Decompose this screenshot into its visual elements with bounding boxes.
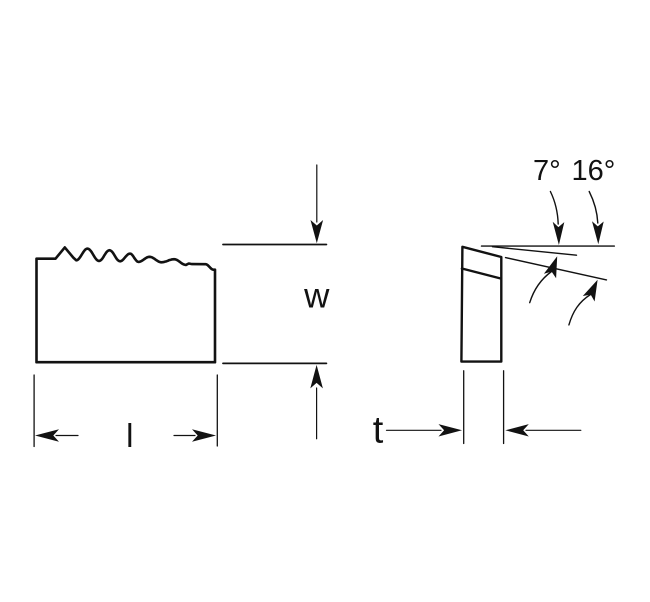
l dimension left extension line bbox=[33, 375, 35, 447]
t dimension right arrowhead (left) bbox=[505, 424, 529, 436]
w dimension upper arrowhead (down) bbox=[311, 220, 324, 243]
t dimension left extension line bbox=[463, 371, 465, 444]
16 degree curved leader arrow tail bbox=[589, 192, 598, 224]
t dimension left arrowhead (right) bbox=[439, 424, 463, 436]
w dimension bottom reference line bbox=[223, 362, 326, 364]
w dimension top reference line bbox=[223, 244, 326, 246]
labels group bbox=[126, 155, 615, 454]
l dimension right arrow tail bbox=[174, 435, 195, 437]
blade side view facet line bbox=[462, 269, 501, 279]
7 degree lower curved arrowhead (up-right) bbox=[544, 256, 557, 278]
svg-text:7°: 7° bbox=[533, 155, 561, 187]
7 degree curved leader arrow tail bbox=[550, 192, 558, 225]
horizontal reference line (angle datum) bbox=[482, 245, 615, 247]
l dimension left arrow tail bbox=[56, 435, 78, 437]
w dimension lower arrowhead (up) bbox=[310, 365, 323, 389]
16 degree face line bbox=[506, 258, 607, 280]
7 degree lower curved arrow tail bbox=[530, 272, 552, 303]
svg-text:16°: 16° bbox=[572, 155, 616, 187]
blade front view outline with serrated top edge bbox=[37, 247, 216, 362]
svg-text:w: w bbox=[303, 277, 330, 316]
t dimension right arrow tail bbox=[526, 429, 581, 431]
svg-text:t: t bbox=[373, 409, 384, 451]
l dimension right extension line bbox=[216, 375, 218, 446]
w dimension upper arrow line bbox=[316, 165, 318, 222]
t dimension right extension line bbox=[503, 371, 505, 444]
16 degree lower curved arrowhead (up-right) bbox=[583, 280, 598, 302]
blade side view outline bbox=[461, 247, 501, 362]
l dimension right arrowhead bbox=[192, 429, 216, 442]
t dimension left arrow tail bbox=[387, 429, 442, 431]
7 degree face line bbox=[493, 247, 577, 256]
svg-text:l: l bbox=[126, 417, 133, 454]
l dimension left arrowhead bbox=[35, 429, 59, 442]
w dimension lower arrow line bbox=[316, 388, 318, 439]
16 degree lower curved arrow tail bbox=[569, 295, 591, 325]
16 degree curved leader arrowhead (down) bbox=[592, 221, 604, 244]
7 degree curved leader arrowhead (down) bbox=[553, 222, 565, 245]
